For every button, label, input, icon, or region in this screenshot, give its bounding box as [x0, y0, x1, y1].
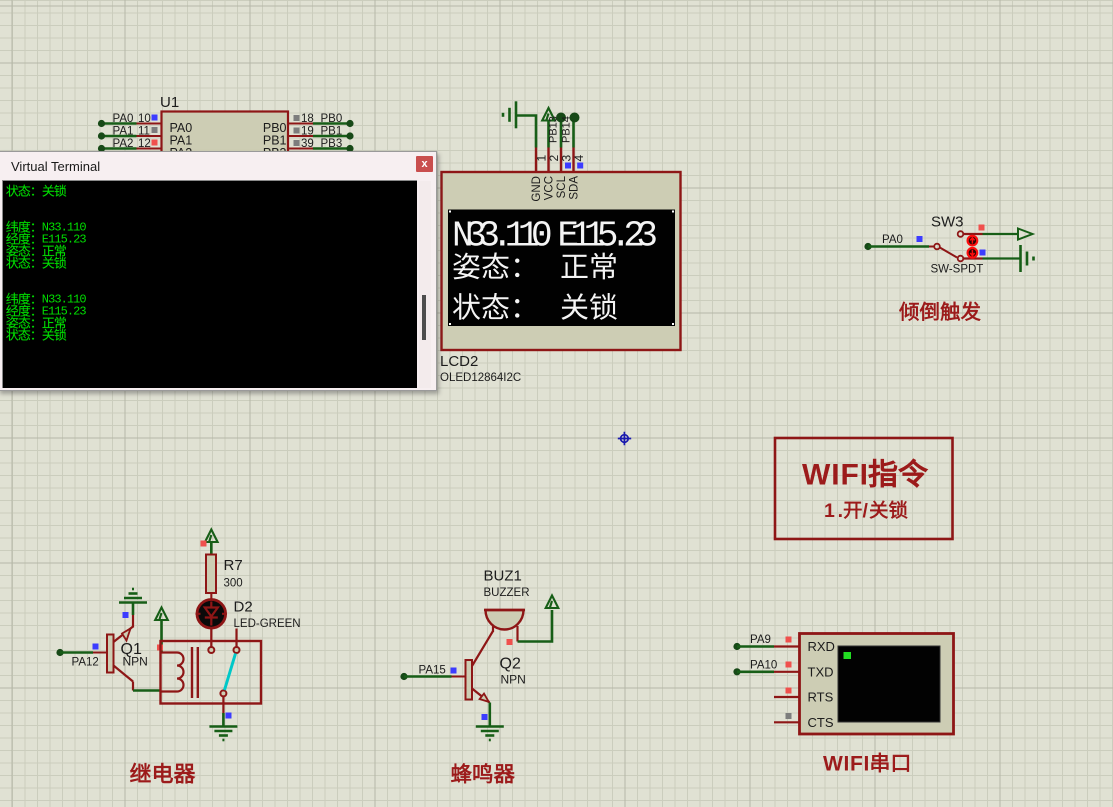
buzzer left pin [492, 626, 494, 632]
label 继电器 [130, 763, 195, 783]
wire buzzer to power [518, 610, 553, 642]
power terminal relay coil [155, 608, 168, 621]
node PA10 terminal [733, 668, 740, 675]
module WIFI screen [838, 646, 940, 722]
wire relay bottom contact down [222, 696, 224, 713]
ground Q2 [476, 727, 504, 741]
svg-text:D2: D2 [234, 599, 253, 616]
wire power to R7 [210, 543, 213, 555]
indicator square PA12 [93, 644, 99, 650]
wire LCD2 pin1 to ground [517, 116, 536, 148]
buzzer BUZ1 top line [484, 609, 525, 611]
switch SW3 lower contact [958, 256, 964, 262]
pin 18 U1 [288, 123, 313, 125]
svg-text:VCC: VCC [544, 176, 556, 200]
buzzer right pin [516, 626, 518, 642]
svg-text:SW3: SW3 [931, 214, 964, 231]
origin marker crosshair [618, 432, 631, 446]
switch SW3 lever [940, 248, 957, 258]
LCD2 screen corner dots [449, 211, 674, 326]
transistor Q1 collector [114, 666, 134, 682]
svg-text:U1: U1 [160, 94, 179, 111]
svg-text:PB0: PB0 [321, 113, 343, 125]
power terminal buzzer [546, 596, 559, 609]
wire Q1 collector down [132, 682, 134, 691]
svg-text:PA0: PA0 [882, 234, 903, 246]
svg-text:10: 10 [138, 113, 151, 125]
svg-text:BUZ1: BUZ1 [484, 568, 522, 585]
pin Q2 base [452, 676, 466, 678]
wire SW3 upper to output arrow [983, 233, 1019, 235]
wire U1 right pin 19 [313, 135, 347, 138]
indicator square relay coil [157, 645, 163, 651]
wire U1 left pin 11 [102, 135, 137, 138]
LCD2 text line2 [453, 253, 615, 280]
indicator square pin 39 [294, 140, 300, 146]
label 1.开/关锁 [824, 500, 907, 522]
svg-text:PA15: PA15 [419, 665, 446, 677]
svg-text:18: 18 [301, 113, 314, 125]
svg-text:RXD: RXD [808, 639, 835, 654]
label 蜂鸣器 [451, 763, 514, 783]
indicator square pin 18 [294, 115, 300, 121]
indicator square Q1 emitter [123, 612, 129, 618]
terminal text line 12 [6, 328, 18, 340]
terminal text line 0 [6, 184, 18, 196]
ground SW3 [1021, 245, 1034, 272]
indicator square pin 4 LCD2 [577, 163, 583, 169]
svg-text:4: 4 [572, 155, 586, 162]
indicator square PA15 [451, 668, 457, 674]
pin 39 U1 [288, 148, 313, 150]
annotation box WIFI指令 [775, 438, 953, 539]
LCD2 text line3 [453, 293, 617, 320]
label WIFI串口 [823, 753, 909, 776]
pin 11 U1 [137, 135, 162, 137]
svg-text:12: 12 [138, 138, 151, 150]
indicator square pin 10 [152, 115, 158, 121]
transistor Q1 emitter [114, 627, 134, 643]
pin Q1 base [93, 652, 107, 654]
svg-text:39: 39 [301, 138, 314, 150]
node PA12 terminal [56, 649, 63, 656]
svg-text:N33.110 E115.23: N33.110 E115.23 [452, 216, 658, 257]
switch SW3 pole contact [934, 244, 940, 250]
indicator square SW3 lower [980, 250, 986, 256]
wire LCD2 pin2 to power [547, 120, 550, 148]
terminal text line 9 [6, 292, 18, 304]
svg-text:SCL: SCL [556, 175, 568, 198]
wire U1 left pin 10 [102, 122, 137, 125]
svg-text:300: 300 [224, 578, 243, 590]
svg-text:PA0: PA0 [113, 113, 134, 125]
wire emitter to ground [132, 603, 135, 615]
pin RTS WIFI [774, 696, 800, 698]
svg-text:CTS: CTS [808, 715, 834, 730]
svg-text:PB13: PB13 [548, 116, 560, 143]
pin 2 LCD2 [547, 148, 549, 173]
ground LCD2 pin1 [503, 101, 516, 128]
pin 1 LCD2 [535, 148, 537, 173]
power terminal R7 [205, 530, 218, 543]
indicator square R7 power [201, 541, 207, 547]
LCD2 screen [448, 210, 675, 327]
wire PA12 to Q1 base [60, 651, 93, 654]
relay contact bottom [220, 690, 226, 696]
svg-text:PB14: PB14 [561, 116, 573, 143]
transistor Q2 emitter [472, 689, 490, 703]
svg-text:R7: R7 [224, 557, 243, 574]
terminal text line 10 [6, 304, 18, 316]
pin SW3 upper contact stub [964, 233, 983, 235]
label 倾倒触发 [899, 302, 980, 321]
terminal screen [2, 180, 417, 388]
node PB13 junction dot [556, 113, 566, 123]
svg-text:PA1: PA1 [113, 126, 134, 138]
svg-text:PA12: PA12 [72, 657, 99, 669]
svg-text:PB1: PB1 [321, 126, 343, 138]
terminal text line 3 [6, 220, 18, 232]
switch SW3 toggle up button [968, 236, 978, 246]
svg-text:SW-SPDT: SW-SPDT [931, 264, 984, 276]
LED D2 [196, 600, 228, 629]
wire relay right contact up [235, 629, 237, 648]
node PA9 terminal [733, 643, 740, 650]
terminal text line 11 [6, 316, 18, 328]
svg-text:11: 11 [138, 126, 150, 138]
indicator square RTS [786, 688, 792, 694]
power terminal LCD2 pin2 [542, 108, 555, 121]
relay core [192, 647, 198, 698]
relay coil [161, 653, 184, 692]
pin CTS WIFI [774, 721, 800, 723]
ground Q1 emitter [119, 589, 147, 603]
wire D2 to relay contact [210, 628, 212, 647]
wire Q1 emitter up [132, 615, 134, 628]
svg-text:E115.23: E115.23 [41, 232, 86, 246]
switch SW3 pole pin [929, 246, 934, 248]
indicator square pin 11 [152, 127, 158, 133]
svg-text:WIFI: WIFI [823, 753, 869, 776]
pin 19 U1 [288, 135, 313, 137]
terminal title bar [0, 152, 436, 180]
svg-text:LED-GREEN: LED-GREEN [234, 618, 301, 630]
node U1 PA1 terminal [98, 132, 105, 139]
node PA15 terminal [400, 673, 407, 680]
chip U1 body [162, 112, 289, 182]
svg-text:/: / [863, 500, 869, 522]
relay contact right [234, 647, 240, 653]
svg-text:PA9: PA9 [750, 634, 771, 646]
terminal scrollbar [419, 181, 431, 388]
wire PA9 to RXD [737, 645, 774, 648]
svg-text:BUZZER: BUZZER [484, 587, 530, 599]
terminal text line 4 [6, 232, 18, 244]
wire Q1 collector to relay coil [133, 689, 161, 692]
terminal close button [416, 156, 433, 173]
pin 10 U1 [137, 123, 162, 125]
svg-text:PA10: PA10 [750, 659, 777, 671]
module WIFI green led square [844, 652, 852, 659]
relay contact left [208, 647, 214, 653]
svg-text:RTS: RTS [808, 690, 834, 705]
transistor Q2 base bar [466, 660, 473, 700]
indicator square pin 12 [152, 140, 158, 146]
node U1 PB1 terminal [346, 132, 353, 139]
svg-text:OLED12864I2C: OLED12864I2C [440, 372, 521, 384]
svg-text:WIFI: WIFI [802, 459, 868, 492]
wire SW3 lower to ground [983, 257, 1021, 259]
transistor Q2 collector [472, 631, 493, 666]
svg-text:LCD2: LCD2 [440, 353, 478, 370]
terminal text line 6 [6, 256, 18, 268]
indicator square buzzer [507, 639, 513, 645]
node PB14 junction dot [570, 113, 580, 123]
svg-text:SDA: SDA [569, 176, 581, 200]
wire U1 left pin 12 [102, 147, 137, 150]
resistor R7 [206, 555, 216, 594]
pin RXD WIFI [774, 645, 800, 647]
svg-text:GND: GND [531, 176, 543, 202]
label WIFI指令 [802, 459, 927, 492]
svg-text:Q2: Q2 [500, 656, 521, 673]
wire U1 right pin 18 [313, 122, 347, 125]
svg-text:TXD: TXD [808, 664, 834, 679]
pin TXD WIFI [774, 671, 800, 673]
indicator square RXD [786, 637, 792, 643]
wire LCD2 pin4 [572, 118, 575, 148]
svg-text:E115.23: E115.23 [41, 304, 86, 318]
svg-text:PB3: PB3 [321, 138, 343, 150]
terminal text line 5 [6, 244, 18, 256]
output terminal arrow [1018, 229, 1033, 240]
svg-text:19: 19 [301, 126, 314, 138]
relay RL1 body [161, 641, 262, 704]
indicator square CTS [786, 713, 792, 719]
buzzer BUZ1 body [486, 610, 524, 630]
svg-text:1.: 1. [824, 500, 843, 522]
indicator square SW3 upper [979, 225, 985, 231]
indicator square pin 3 LCD2 [565, 163, 571, 169]
switch SW3 toggle down button [968, 248, 978, 258]
node PA0 terminal SW3 [864, 243, 871, 250]
pin 3 LCD2 [560, 148, 562, 173]
wire Q2 emitter to ground [488, 703, 491, 727]
switch SW3 upper contact [958, 231, 964, 237]
relay lever cyan [225, 654, 236, 691]
wire power to relay coil [160, 621, 163, 653]
transistor Q1 base bar [107, 635, 114, 673]
wire PA15 to Q2 base [404, 675, 452, 678]
node U1 PB0 terminal [346, 120, 353, 127]
indicator square Q2 emitter [482, 714, 488, 720]
wire LCD2 pin3 [560, 118, 563, 148]
indicator square pin 19 [294, 128, 300, 134]
LCD2 body [442, 172, 681, 350]
node U1 PA0 terminal [98, 120, 105, 127]
wire PA10 to TXD [737, 670, 774, 673]
module WIFI body [800, 634, 954, 735]
wire R7 to D2 [210, 593, 212, 600]
node U1 PA2 terminal [98, 145, 105, 152]
ground relay contact [209, 727, 237, 741]
wire to ground relay [222, 713, 225, 727]
pin 12 U1 [137, 148, 162, 150]
pin SW3 lower contact stub [964, 257, 983, 259]
indicator square relay bottom [226, 713, 232, 719]
Virtual Terminal window [0, 151, 437, 391]
svg-text:PA2: PA2 [113, 138, 134, 150]
pin 4 LCD2 [572, 148, 574, 173]
svg-text:NPN: NPN [501, 673, 526, 687]
wire U1 right pin 39 [313, 147, 347, 150]
node U1 PB3 terminal [346, 145, 353, 152]
indicator square TXD [786, 662, 792, 668]
wire PA0 to SW3 [868, 245, 929, 248]
svg-text:NPN: NPN [123, 655, 148, 669]
indicator square SW3 pole [917, 236, 923, 242]
